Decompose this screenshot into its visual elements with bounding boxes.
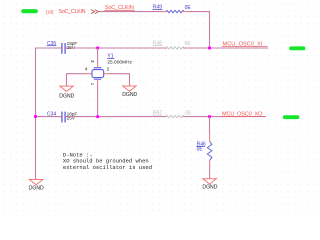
wire crystal pin4 to DGND (67, 74, 87, 86)
capacitor C35 (47, 41, 78, 54)
crystal body (92, 70, 104, 78)
junction R46 branch / XO (208, 115, 211, 118)
svg-text:2: 2 (107, 66, 110, 72)
svg-text:1: 1 (89, 83, 95, 86)
svg-text:0E: 0E (185, 41, 192, 47)
svg-text:4: 4 (85, 66, 88, 72)
junction C34 / ground leg (34, 115, 37, 118)
svg-text:0E: 0E (185, 5, 192, 11)
resistor R49 (153, 5, 192, 13)
resistor R48 (not fitted, gray) (153, 41, 192, 50)
wire crystal pin3 up to XI (97, 48, 99, 64)
ground DGND (C35/C34 leg) (29, 180, 44, 192)
wire XI segment C35 to R48 (66, 47, 167, 49)
svg-text:DGND: DGND (29, 185, 44, 191)
wire R49 to corner down to XI line (189, 12, 210, 48)
net label MCU_OSC0_XI (222, 42, 268, 48)
junction crystal pin3 / XI (96, 46, 99, 49)
svg-text:DGND: DGND (202, 185, 217, 191)
highlight marker (green) at SoC_CLKIN port (21, 9, 38, 13)
wire C34 left to ground leg (36, 116, 62, 118)
resistor R47 (not fitted, gray) (153, 110, 192, 118)
junction crystal pin1 / XO (96, 115, 99, 118)
svg-text:external oscillator is used: external oscillator is used (63, 164, 152, 171)
svg-text:SoC_CLKIN: SoC_CLKIN (59, 9, 86, 15)
svg-text:3: 3 (89, 60, 95, 63)
svg-text:0E: 0E (185, 110, 192, 116)
svg-text:DGND: DGND (59, 93, 74, 99)
wire XO segment C34 to R47 (66, 116, 167, 118)
wire SoC_CLKIN from port to R49 (99, 11, 161, 13)
highlight marker (green) at MCU_OSC0_XO (283, 115, 300, 119)
crystal plates (94, 67, 101, 69)
ground DGND (R46) (202, 179, 217, 191)
junction R49 branch / XI (208, 46, 211, 49)
capacitor C34 (47, 111, 78, 122)
wire crystal pin1 down to XO (97, 84, 99, 116)
resistor R46 (196, 133, 212, 166)
net label MCU_OSC0_XO (221, 112, 263, 118)
wire XO down to R46 (209, 117, 211, 134)
net label SoC_CLKIN (104, 5, 134, 11)
ground DGND (crystal pin2) (122, 86, 137, 98)
wire R46 to DGND (209, 166, 211, 179)
wire XI segment R48 to end (183, 47, 268, 49)
crystal pin stubs (97, 63, 99, 67)
note text (63, 152, 152, 171)
highlight marker (green) at MCU_OSC0_XI (289, 46, 305, 50)
ground DGND (crystal pin4) (59, 86, 74, 99)
wire XO segment R47 to end (183, 116, 266, 118)
wire C35 ground leg (left corner, down to DGND) (36, 48, 62, 179)
svg-text:25.000MHz: 25.000MHz (107, 60, 132, 66)
svg-text:DGND: DGND (122, 92, 137, 98)
svg-text:[18]: [18] (46, 9, 54, 14)
svg-text:25V: 25V (67, 45, 76, 50)
wire crystal pin2 to DGND (109, 74, 129, 86)
crystal Y1 (85, 54, 133, 86)
port SoC_CLKIN (59, 9, 99, 15)
svg-text:0E: 0E (197, 146, 204, 152)
